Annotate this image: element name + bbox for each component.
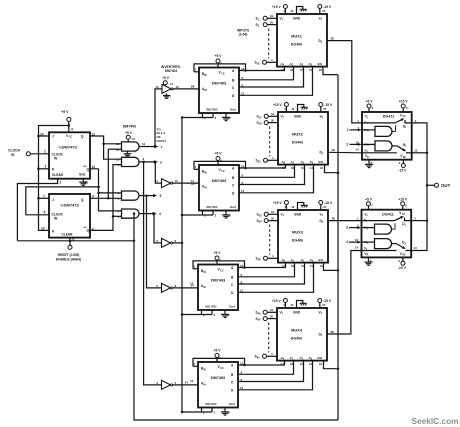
svg-text:20: 20 [270, 21, 274, 25]
svg-text:V2: V2 [319, 310, 323, 315]
svg-text:20: 20 [271, 217, 275, 221]
wire U13 D2 to output bus [412, 152, 427, 154]
svg-text:(1-64): (1-64) [239, 33, 248, 37]
svg-text:K: K [52, 229, 55, 233]
wire D1 MUX1 to U13 S1 [327, 41, 362, 123]
svg-text:C: C [232, 86, 235, 90]
gate B U13 [362, 143, 375, 145]
power -15V U10 [319, 103, 323, 107]
node 2 output arrow [139, 161, 156, 163]
svg-text:8: 8 [405, 204, 407, 208]
svg-text:V1: V1 [281, 114, 285, 119]
svg-text:2: 2 [160, 160, 162, 164]
svg-text:AIN: AIN [202, 185, 207, 190]
svg-text:D: D [231, 388, 234, 392]
svg-text:CLEAR: CLEAR [62, 232, 74, 236]
svg-text:C: C [231, 380, 234, 384]
wire node4 to inverter U4c input [154, 214, 162, 243]
inverter U4b [162, 179, 171, 188]
svg-text:V1: V1 [281, 212, 285, 217]
gate U3b [122, 157, 139, 166]
ground U11 pin 12 [298, 203, 304, 211]
wire U14 D1 to output bus [411, 220, 427, 222]
svg-text:Gnd: Gnd [230, 205, 236, 209]
counter U6 DM7493 [199, 165, 239, 211]
svg-text:SeekIC.com: SeekIC.com [412, 416, 459, 426]
svg-text:14: 14 [191, 85, 195, 89]
svg-text:EN: EN [319, 160, 324, 164]
svg-text:1: 1 [161, 145, 163, 149]
svg-text:19: 19 [270, 308, 274, 312]
svg-text:+5 V: +5 V [214, 349, 222, 353]
svg-text:+15 V: +15 V [399, 100, 409, 104]
svg-text:CC: CC [402, 214, 406, 216]
svg-text:+15 V: +15 V [273, 201, 283, 205]
dashed continuation line U9 [268, 29, 270, 59]
svg-text:CC: CC [220, 269, 224, 272]
svg-text:+5 V: +5 V [366, 100, 374, 104]
svg-text:3: 3 [214, 313, 216, 317]
svg-text:8: 8 [143, 157, 145, 161]
svg-text:S1: S1 [256, 17, 260, 22]
wire EN MUX4 [324, 361, 339, 369]
svg-text:GND: GND [294, 114, 302, 118]
svg-text:+15 V: +15 V [398, 197, 408, 201]
gate A U13 [362, 129, 375, 131]
power -15V U11 [319, 201, 323, 205]
wire U1 Qbar to gates [90, 168, 99, 170]
svg-text:14: 14 [185, 381, 189, 385]
svg-text:K: K [52, 167, 55, 171]
inverter U4d [162, 283, 171, 292]
svg-text:MUX3: MUX3 [292, 229, 304, 234]
svg-text:DG411: DG411 [382, 212, 393, 216]
svg-text:GND: GND [293, 310, 301, 314]
svg-text:27: 27 [323, 205, 327, 209]
inverter U4a [162, 84, 171, 93]
wire D2 MUX2 to U13 S2 [328, 151, 362, 154]
dashed continuation line U10 [269, 127, 271, 157]
wire U5 R0 pins to reset bus [202, 113, 204, 118]
wire node1 to inverter U4a input [155, 89, 162, 147]
wire U5 QA feedback to B input [194, 71, 199, 73]
svg-text:5: 5 [156, 239, 158, 243]
gate U3a [122, 142, 139, 151]
switch A U13 [362, 122, 395, 124]
svg-text:S32: S32 [256, 159, 262, 164]
svg-text:DM7493: DM7493 [211, 376, 225, 380]
node 4 output arrow [139, 213, 154, 215]
svg-text:VL: VL [365, 115, 369, 120]
wire inverter U4b output to U6 pin 14 [173, 182, 200, 184]
svg-text:S50: S50 [256, 317, 262, 322]
svg-text:S17: S17 [257, 115, 263, 120]
svg-text:11: 11 [142, 142, 146, 146]
svg-text:D: D [231, 291, 234, 295]
svg-text:EE: EE [403, 157, 407, 159]
svg-text:½DM7473: ½DM7473 [58, 145, 77, 150]
svg-text:B: B [232, 176, 235, 180]
svg-text:MUX1: MUX1 [291, 33, 303, 38]
ground U3 pin 7 [127, 151, 129, 153]
svg-text:D3: D3 [320, 219, 324, 224]
svg-text:14: 14 [191, 182, 195, 186]
svg-text:16: 16 [319, 362, 323, 366]
svg-text:J: J [52, 198, 54, 202]
wire U7 QA feedback to B input [193, 268, 198, 270]
ground U9 pin 12 [297, 7, 303, 15]
svg-text:C: C [231, 283, 234, 287]
wire node2 to inverter U4b input [155, 162, 161, 183]
svg-text:Gnd: Gnd [230, 108, 236, 112]
multiplexer U10 MUX2 DG406 [278, 112, 328, 165]
svg-text:6: 6 [175, 239, 177, 243]
gate U3d [122, 209, 140, 218]
counter U5 DM7493 [199, 68, 239, 114]
svg-text:4: 4 [175, 381, 177, 385]
svg-text:C: C [232, 183, 235, 187]
svg-text:+15 V: +15 V [272, 5, 282, 9]
counter U7 DM7493 [198, 265, 238, 311]
svg-text:R01 R02: R01 R02 [206, 108, 217, 112]
svg-text:28: 28 [331, 36, 335, 40]
svg-text:27: 27 [322, 303, 326, 307]
svg-text:12: 12 [291, 107, 295, 111]
output bus wire [411, 123, 427, 251]
svg-text:OUT: OUT [441, 183, 451, 188]
wire U8 R0 pins to reset bus [201, 408, 203, 413]
svg-text:R01 R02: R01 R02 [205, 305, 216, 309]
svg-text:DM7404: DM7404 [165, 69, 178, 73]
svg-text:4: 4 [346, 240, 348, 244]
svg-text:14: 14 [190, 379, 194, 383]
svg-text:Q: Q [87, 228, 90, 232]
svg-text:CC: CC [69, 136, 73, 139]
svg-text:BIN: BIN [201, 269, 206, 274]
wires U7 outputs to MUX3 address [239, 263, 286, 268]
svg-text:B: B [232, 78, 235, 82]
ground U7 pin 10 [224, 310, 226, 313]
svg-text:Q: Q [81, 135, 84, 139]
wire U1 Q to gates [90, 136, 122, 159]
switch U14 DG411 [362, 210, 412, 258]
svg-text:12: 12 [290, 9, 294, 13]
svg-text:-15 V: -15 V [398, 168, 407, 172]
svg-text:A: A [231, 266, 234, 270]
power -15V U9 [318, 5, 322, 9]
svg-text:+5 V: +5 V [215, 54, 223, 58]
output terminal [427, 184, 435, 186]
wire U1 Qbar to U2 clock [26, 187, 99, 215]
svg-text:AIN: AIN [201, 284, 206, 289]
wire D4 MUX4 to U14 S2 [327, 251, 362, 335]
svg-text:9: 9 [156, 284, 158, 288]
svg-text:AIN: AIN [201, 382, 206, 387]
flip-flop U1 1/2 DM7473 [49, 132, 90, 178]
svg-text:Q: Q [81, 198, 84, 202]
svg-text:20: 20 [271, 119, 275, 123]
bottom reset bus wire [134, 214, 338, 420]
switch B U13 [392, 145, 397, 147]
svg-text:28: 28 [331, 330, 335, 334]
svg-text:19: 19 [271, 112, 275, 116]
svg-text:9: 9 [399, 161, 401, 165]
svg-text:13: 13 [414, 246, 418, 250]
svg-text:DG406: DG406 [292, 140, 303, 144]
switch B U14 [392, 243, 397, 245]
svg-text:27: 27 [322, 9, 326, 13]
dashed continuation line U12 [268, 323, 270, 353]
wires U8 outputs to MUX4 address [239, 361, 285, 365]
svg-text:DM7400: DM7400 [123, 124, 137, 128]
svg-text:DG406: DG406 [291, 336, 302, 340]
svg-text:3: 3 [346, 226, 348, 230]
svg-text:EN: EN [318, 356, 323, 360]
wire U6 QA feedback to B input [194, 168, 199, 170]
svg-text:DM7493: DM7493 [211, 279, 225, 283]
wire U2 Q to gates [90, 197, 122, 199]
inverter U4c [162, 238, 171, 247]
svg-text:14: 14 [190, 282, 194, 286]
svg-text:D4: D4 [319, 332, 323, 337]
svg-text:A: A [232, 167, 235, 171]
wire U1 CLEAR to reset net [17, 179, 57, 241]
wire inverter U4c output to reset bus [173, 242, 183, 244]
svg-text:+5 V: +5 V [215, 152, 223, 156]
ground U6 pin 10 [225, 211, 227, 214]
svg-text:8: 8 [175, 284, 177, 288]
svg-text:Gnd: Gnd [229, 402, 235, 406]
svg-text:V2: V2 [319, 16, 323, 21]
svg-text:S34: S34 [257, 219, 263, 224]
multiplexer U9 MUX1 DG406 [277, 14, 327, 67]
svg-text:D2: D2 [402, 241, 406, 246]
svg-text:CC: CC [220, 367, 224, 370]
svg-text:DG511: DG511 [157, 139, 167, 143]
svg-text:DG406: DG406 [291, 42, 302, 46]
svg-text:14: 14 [132, 137, 136, 141]
reset bus vertical wire [181, 118, 183, 413]
svg-text:B: B [231, 373, 234, 377]
svg-text:MUX2: MUX2 [292, 131, 304, 136]
svg-text:V1: V1 [280, 310, 284, 315]
svg-text:S33: S33 [257, 213, 263, 218]
wire U6 R0 pins to reset bus [202, 211, 204, 216]
svg-text:14: 14 [356, 148, 360, 152]
svg-text:-15 V: -15 V [398, 266, 407, 270]
svg-text:4: 4 [71, 128, 73, 132]
svg-text:7: 7 [371, 204, 373, 208]
inverter U4e [162, 380, 171, 389]
svg-text:D2: D2 [403, 143, 407, 148]
svg-text:12: 12 [291, 205, 295, 209]
svg-text:CC: CC [403, 116, 407, 118]
svg-text:D1: D1 [319, 39, 323, 44]
node 1 output arrow [139, 146, 156, 148]
svg-text:EE: EE [403, 255, 407, 257]
svg-text:R01 R02: R01 R02 [205, 402, 216, 406]
svg-text:3: 3 [215, 116, 217, 120]
svg-text:CC: CC [221, 72, 225, 75]
reset input terminal [69, 238, 71, 246]
svg-text:+5 V: +5 V [61, 110, 69, 114]
svg-text:AIN: AIN [202, 87, 207, 92]
svg-text:S2: S2 [256, 23, 260, 28]
svg-text:S18: S18 [257, 121, 263, 126]
svg-text:CC: CC [221, 170, 225, 173]
svg-text:12: 12 [176, 85, 180, 89]
counter U8 DM7493 [198, 362, 238, 408]
svg-text:VL: VL [365, 212, 369, 217]
wire U2 Qbar to gates [90, 165, 122, 231]
svg-text:DM7493: DM7493 [212, 179, 226, 183]
svg-text:Q: Q [87, 167, 90, 171]
wire node2 to inverter U4e input [144, 162, 162, 385]
wire U7 R0 pins to reset bus [201, 310, 203, 315]
svg-text:BIN: BIN [202, 72, 207, 77]
wires U6 outputs to MUX2 address [239, 165, 286, 168]
svg-text:3: 3 [215, 214, 217, 218]
svg-text:1: 1 [347, 128, 349, 132]
multiplexer U12 MUX4 DG406 [277, 308, 327, 361]
switch A U14 [362, 220, 395, 222]
svg-text:S64: S64 [255, 355, 261, 360]
svg-text:BIN: BIN [202, 170, 207, 175]
svg-text:20: 20 [270, 315, 274, 319]
wire inverter U4a output to U5 pin 14 [173, 88, 199, 90]
svg-text:3: 3 [156, 381, 158, 385]
svg-text:10: 10 [41, 226, 45, 230]
svg-text:GND: GND [294, 212, 302, 216]
svg-text:EN: EN [319, 258, 324, 262]
wire inverter U4e output to U8 pin 14 [173, 384, 199, 386]
svg-text:Gnd: Gnd [79, 172, 85, 176]
svg-text:CLOCK: CLOCK [8, 149, 21, 153]
svg-text:EN: EN [318, 62, 323, 66]
svg-text:+15 V: +15 V [273, 103, 283, 107]
svg-text:VR: VR [365, 252, 369, 257]
svg-text:3: 3 [45, 164, 47, 168]
svg-text:+5 V: +5 V [125, 131, 133, 135]
svg-text:5: 5 [44, 210, 46, 214]
svg-text:4: 4 [271, 352, 273, 356]
wire J K tie-high rail [68, 124, 71, 127]
svg-text:8: 8 [406, 106, 408, 110]
svg-text:+5 V: +5 V [162, 76, 170, 80]
svg-text:R01 R02: R01 R02 [206, 205, 217, 209]
svg-text:S16: S16 [255, 61, 261, 66]
svg-text:+5 V: +5 V [365, 197, 373, 201]
svg-text:V2: V2 [320, 114, 324, 119]
svg-text:MUX4: MUX4 [291, 327, 303, 332]
svg-text:19: 19 [271, 210, 275, 214]
switch U13 DG411 [362, 112, 412, 160]
svg-text:S49: S49 [256, 311, 262, 316]
svg-text:D: D [232, 191, 235, 195]
enable bus wire [323, 67, 338, 75]
ground U10 pin 12 [298, 105, 304, 113]
wire inverter U4d output to U7 pin 14 [173, 287, 199, 289]
svg-text:CLEAR: CLEAR [52, 173, 64, 177]
svg-text:J: J [52, 135, 54, 139]
svg-text:+5 V: +5 V [214, 251, 222, 255]
svg-text:GND: GND [293, 16, 301, 20]
wire CLOCK IN to U1 pin 1 [30, 153, 49, 155]
ground U5 pin 10 [225, 113, 227, 116]
svg-text:4: 4 [159, 212, 161, 216]
node 3 output arrow [139, 195, 155, 197]
ground U8 pin 10 [224, 408, 226, 411]
svg-text:4: 4 [272, 156, 274, 160]
svg-text:IN: IN [11, 153, 15, 157]
svg-text:4: 4 [272, 254, 274, 258]
svg-text:V1: V1 [280, 16, 284, 21]
svg-text:1: 1 [194, 362, 196, 366]
svg-text:DM7493: DM7493 [212, 82, 226, 86]
svg-text:Gnd: Gnd [229, 305, 235, 309]
wire EN MUX2 [325, 165, 339, 173]
ground U12 pin 12 [297, 301, 303, 309]
svg-text:13: 13 [155, 85, 159, 89]
svg-text:2: 2 [347, 142, 349, 146]
power -15V U12 [318, 299, 322, 303]
svg-text:7: 7 [43, 194, 45, 198]
svg-text:D1: D1 [403, 124, 407, 129]
svg-text:D1: D1 [402, 222, 406, 227]
wire node3 to inverter U4d input [147, 196, 162, 288]
reset net rail [17, 240, 134, 242]
svg-text:DG411: DG411 [383, 115, 394, 119]
svg-text:7: 7 [372, 106, 374, 110]
svg-text:14: 14 [40, 133, 44, 137]
svg-text:VR: VR [365, 154, 369, 159]
ground U4 pin 7 [166, 93, 168, 94]
svg-text:IN: IN [54, 157, 58, 161]
svg-text:2: 2 [60, 181, 62, 185]
multiplexer U11 MUX3 DG406 [278, 210, 328, 263]
gate B U14 [362, 241, 375, 243]
svg-text:ENABLE (HIGH): ENABLE (HIGH) [56, 257, 81, 261]
svg-text:A: A [231, 364, 234, 368]
svg-text:19: 19 [270, 14, 274, 18]
svg-text:14: 14 [355, 245, 359, 249]
svg-text:7: 7 [170, 94, 172, 98]
svg-text:DG406: DG406 [292, 238, 303, 242]
svg-text:9: 9 [398, 259, 400, 263]
gate A U14 [362, 227, 375, 229]
svg-text:D: D [232, 94, 235, 98]
svg-text:BIN: BIN [201, 367, 206, 372]
svg-text:IN: IN [54, 217, 58, 221]
svg-text:27: 27 [323, 107, 327, 111]
svg-text:1: 1 [195, 68, 197, 72]
svg-text:V2: V2 [320, 212, 324, 217]
wire U8 QA feedback to B input [193, 365, 198, 367]
svg-text:28: 28 [332, 148, 336, 152]
wire D3 MUX3 to U14 S1 [328, 220, 362, 222]
svg-text:RESET (LOW): RESET (LOW) [58, 253, 80, 257]
svg-text:D2: D2 [320, 151, 324, 156]
svg-text:A: A [232, 69, 235, 73]
svg-text:12: 12 [290, 303, 294, 307]
svg-text:B: B [231, 275, 234, 279]
svg-text:3: 3 [214, 411, 216, 415]
svg-text:S48: S48 [256, 257, 262, 262]
wires U5 outputs to MUX1 address [239, 67, 285, 71]
svg-text:16: 16 [320, 166, 324, 170]
svg-text:+15 V: +15 V [272, 299, 282, 303]
svg-text:10: 10 [175, 179, 179, 183]
